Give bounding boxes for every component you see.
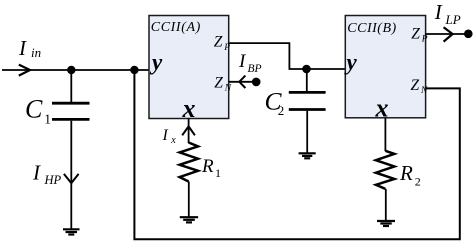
wire C2 bottom bbox=[306, 111, 308, 154]
svg-text:x: x bbox=[170, 135, 176, 146]
block CCII(B) bbox=[345, 16, 425, 118]
svg-text:CCII(A): CCII(A) bbox=[151, 20, 201, 35]
resistor R1 bbox=[180, 143, 198, 182]
pin Zn (A) bbox=[214, 74, 232, 93]
node input junction bbox=[67, 66, 75, 74]
svg-text:1: 1 bbox=[44, 112, 51, 127]
arrow ILP bbox=[444, 27, 453, 41]
svg-text:I: I bbox=[162, 127, 169, 144]
node IBP terminal bbox=[252, 78, 261, 87]
wire C1 top bbox=[70, 70, 72, 102]
wire C2 top bbox=[306, 69, 308, 91]
svg-text:Z: Z bbox=[214, 74, 223, 91]
wire C1 bottom bbox=[70, 121, 72, 230]
svg-text:N: N bbox=[224, 84, 232, 94]
svg-text:Z: Z bbox=[214, 34, 223, 51]
svg-text:x: x bbox=[375, 94, 389, 123]
ground C2 bbox=[299, 153, 316, 158]
node C2 junction bbox=[302, 65, 311, 74]
svg-text:I: I bbox=[18, 36, 27, 60]
svg-text:1: 1 bbox=[215, 166, 221, 180]
wire Zp B out bbox=[426, 33, 465, 35]
label IBP bbox=[238, 51, 262, 75]
label Iin bbox=[18, 36, 41, 60]
arrow IBP bbox=[239, 76, 245, 88]
wire x A bbox=[188, 119, 190, 144]
label R2 bbox=[399, 161, 421, 189]
node ILP terminal bbox=[464, 30, 473, 39]
capacitor C1 bbox=[52, 103, 90, 119]
resistor R2 bbox=[376, 151, 395, 189]
label ILP bbox=[434, 0, 461, 27]
capacitor C2 bbox=[289, 92, 326, 109]
pin Zp (A) bbox=[214, 34, 231, 53]
svg-text:2: 2 bbox=[415, 175, 421, 189]
svg-text:Z: Z bbox=[411, 77, 420, 94]
svg-text:C: C bbox=[25, 95, 43, 124]
svg-text:BP: BP bbox=[248, 63, 262, 75]
svg-text:in: in bbox=[31, 45, 41, 60]
arrow Iin bbox=[19, 65, 30, 76]
svg-text:I: I bbox=[434, 0, 443, 24]
svg-text:y: y bbox=[344, 50, 358, 75]
ground R1 bbox=[180, 217, 198, 222]
svg-text:I: I bbox=[238, 51, 247, 72]
wire Zp A to node and y of B bbox=[229, 43, 346, 69]
svg-text:CCII(B): CCII(B) bbox=[347, 21, 396, 36]
svg-text:P: P bbox=[421, 35, 428, 45]
svg-text:Z: Z bbox=[411, 25, 420, 42]
svg-text:LP: LP bbox=[445, 12, 461, 27]
pin Zp (B) bbox=[411, 25, 428, 44]
arrow IHP bbox=[64, 174, 79, 183]
block CCII(A) bbox=[149, 16, 229, 119]
svg-text:I: I bbox=[32, 160, 41, 184]
pin Zn (B) bbox=[411, 77, 429, 96]
wire x B bbox=[384, 118, 386, 151]
svg-text:2: 2 bbox=[278, 103, 285, 118]
node feedback junction bbox=[130, 66, 138, 74]
svg-text:R: R bbox=[201, 156, 214, 177]
label Ix bbox=[162, 127, 177, 146]
label IHP bbox=[32, 160, 62, 187]
label C1 bbox=[25, 95, 51, 127]
ground R2 bbox=[377, 221, 395, 226]
svg-text:R: R bbox=[399, 161, 413, 185]
svg-text:y: y bbox=[149, 50, 163, 75]
ground C1 bbox=[63, 229, 80, 234]
arrow Ix bbox=[182, 126, 195, 135]
label C2 bbox=[265, 87, 285, 119]
wire R2 bottom bbox=[385, 189, 387, 221]
wire Zn A stub bbox=[229, 81, 253, 83]
wire R1 bottom bbox=[188, 182, 190, 218]
svg-text:P: P bbox=[223, 43, 230, 53]
svg-text:HP: HP bbox=[44, 173, 62, 187]
wire input Iin bbox=[2, 69, 150, 71]
label R1 bbox=[201, 156, 221, 180]
wire Zn B feedback loop bbox=[134, 70, 459, 239]
